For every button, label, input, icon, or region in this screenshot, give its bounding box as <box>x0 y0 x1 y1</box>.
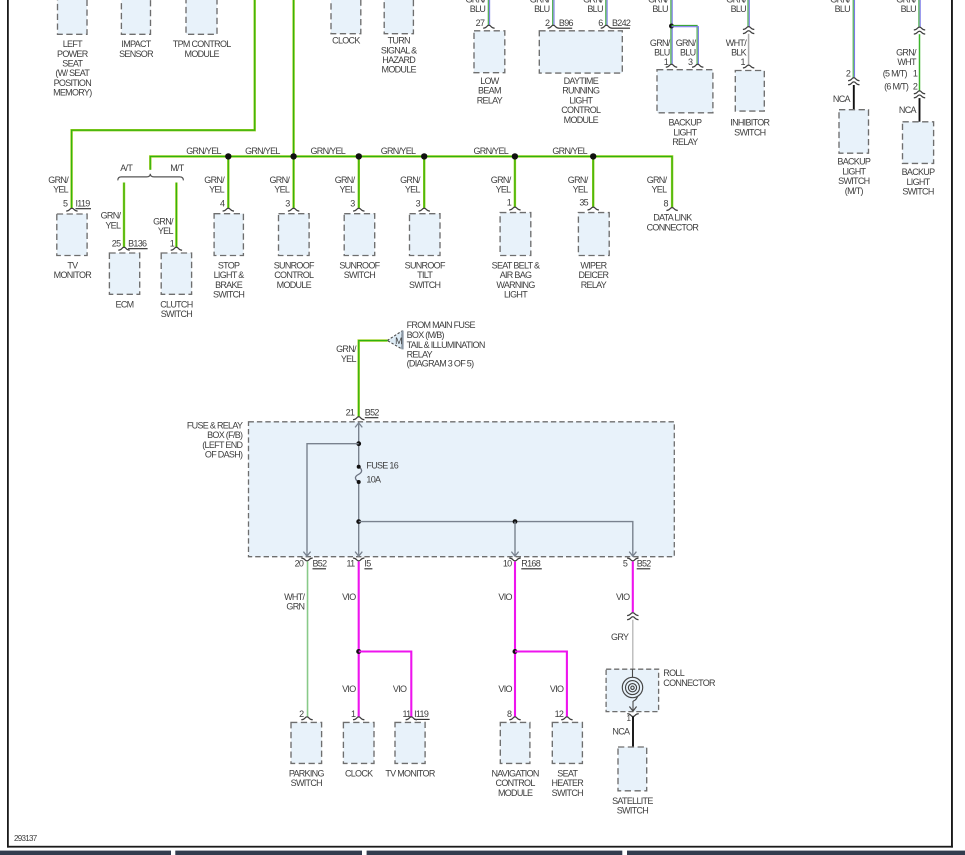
wire VIO branch to SEAT HEATER SWITCH <box>515 652 567 717</box>
svg-text:SEAT: SEAT <box>62 59 83 69</box>
svg-text:SATELLITE: SATELLITE <box>612 796 653 806</box>
svg-text:GRN/: GRN/ <box>568 175 589 185</box>
wire GRN/YEL from top to TV MONITOR (down, left, down) <box>48 0 254 208</box>
svg-text:WHT/: WHT/ <box>726 38 747 48</box>
svg-text:TV: TV <box>67 261 78 271</box>
svg-text:5: 5 <box>623 559 628 569</box>
svg-text:BLU: BLU <box>470 4 486 14</box>
junction dot bus x293 <box>290 153 296 159</box>
svg-text:HAZARD: HAZARD <box>382 55 416 65</box>
component box SEAT HEATER SWITCH <box>551 722 584 797</box>
svg-text:CONTROL: CONTROL <box>561 105 601 115</box>
component box NAVIGATION CONTROL MODULE <box>492 722 539 797</box>
svg-text:4: 4 <box>220 198 225 208</box>
svg-text:GRN/YEL: GRN/YEL <box>381 146 416 156</box>
wire label GRN/YEL at DATA LINK CONNECTOR <box>647 175 668 195</box>
wire GRN/BLU from top to DAYTIME pin 6 <box>583 0 607 25</box>
svg-text:LIGHT: LIGHT <box>569 95 593 105</box>
arrow exit at roll connector bottom <box>629 707 636 712</box>
svg-text:YEL: YEL <box>339 185 355 195</box>
component box CLOCK (bottom) <box>343 722 374 778</box>
svg-text:B52: B52 <box>313 559 328 569</box>
svg-text:8: 8 <box>507 709 512 719</box>
svg-text:FUSE & RELAY: FUSE & RELAY <box>187 420 243 430</box>
svg-text:DEICER: DEICER <box>578 270 609 280</box>
svg-text:GRN/: GRN/ <box>101 211 122 221</box>
svg-text:2: 2 <box>913 82 918 92</box>
svg-text:SWITCH: SWITCH <box>409 280 440 290</box>
svg-text:YEL: YEL <box>496 185 512 195</box>
svg-text:BLU: BLU <box>534 4 550 14</box>
junction dot VIO branch (nav/seat heater) <box>513 649 518 654</box>
wire GRN/YEL A/T branch to ECM <box>101 183 124 248</box>
svg-text:25: 25 <box>112 238 121 248</box>
svg-text:WHT/: WHT/ <box>284 592 305 602</box>
node labels (5 M/T) 1 and (6 M/T) 2 <box>883 68 918 91</box>
svg-text:BLU: BLU <box>731 4 747 14</box>
svg-text:CONTROL: CONTROL <box>274 270 314 280</box>
note text FROM MAIN FUSE BOX <box>407 320 485 368</box>
page frame bottom border <box>7 846 953 848</box>
node pin 3 at SUNROOF CONTROL MODULE <box>285 198 299 211</box>
svg-text:BEAM: BEAM <box>478 86 501 96</box>
arrow exit pin 11 <box>355 551 362 556</box>
svg-text:2: 2 <box>846 69 851 79</box>
inline connector symbol (far right top) <box>914 27 925 34</box>
svg-text:2: 2 <box>299 709 304 719</box>
component box INHIBITOR SWITCH <box>730 71 770 138</box>
svg-text:I5: I5 <box>364 559 371 569</box>
svg-text:SEAT BELT &: SEAT BELT & <box>492 261 540 271</box>
svg-text:WIPER: WIPER <box>580 261 607 271</box>
svg-text:SWITCH: SWITCH <box>902 187 933 197</box>
svg-text:TURN: TURN <box>388 36 410 46</box>
svg-text:(DIAGRAM 3 OF 5): (DIAGRAM 3 OF 5) <box>407 358 475 368</box>
svg-text:LIGHT: LIGHT <box>906 177 930 187</box>
node pin 10 R168 below fuse box <box>503 558 542 569</box>
junction dot GRN/BLU branch <box>669 24 674 29</box>
svg-text:YEL: YEL <box>573 185 589 195</box>
page frame right border <box>951 0 953 848</box>
svg-text:B52: B52 <box>637 559 652 569</box>
component box BACKUP LIGHT SWITCH <box>902 122 936 197</box>
svg-text:LIGHT: LIGHT <box>673 127 697 137</box>
svg-text:3: 3 <box>285 198 290 208</box>
wire GRN/YEL drop to SUNROOF SWITCH <box>335 156 359 208</box>
svg-text:10A: 10A <box>366 475 381 485</box>
svg-text:MONITOR: MONITOR <box>54 270 93 280</box>
svg-text:SUNROOF: SUNROOF <box>405 261 446 271</box>
component box LEFT POWER SEAT (clipped top) <box>53 0 92 98</box>
svg-text:BLU: BLU <box>652 4 668 14</box>
svg-text:LEFT: LEFT <box>63 39 83 49</box>
wire internal vertical from pin 21 to bottom exit 11 <box>358 423 360 551</box>
svg-text:SEAT: SEAT <box>557 768 578 778</box>
svg-text:B52: B52 <box>365 408 380 418</box>
wire VIO from pin 5 to inline connector <box>616 562 633 613</box>
wire GRN/YEL drop to WIPER DEICER RELAY <box>568 156 593 207</box>
svg-text:OF DASH): OF DASH) <box>205 450 243 460</box>
svg-text:GRN/YEL: GRN/YEL <box>473 146 508 156</box>
svg-text:LIGHT: LIGHT <box>842 166 866 176</box>
svg-text:5: 5 <box>63 198 68 208</box>
svg-text:35: 35 <box>579 197 588 207</box>
svg-text:SIGNAL &: SIGNAL & <box>381 45 417 55</box>
junction dot internal branch x515 <box>513 519 518 524</box>
svg-text:PARKING: PARKING <box>289 768 325 778</box>
svg-text:DATA LINK: DATA LINK <box>653 213 692 223</box>
svg-text:FROM MAIN FUSE: FROM MAIN FUSE <box>407 320 476 330</box>
component box CLOCK (clipped top) <box>331 0 361 46</box>
svg-text:A/T: A/T <box>120 163 133 173</box>
bottom table header bar 3 <box>367 851 623 855</box>
component box ECM <box>109 253 139 309</box>
svg-text:(W/ SEAT: (W/ SEAT <box>55 68 90 78</box>
svg-text:GRN/: GRN/ <box>647 175 668 185</box>
wire VIO branch to TV MONITOR <box>359 652 412 717</box>
svg-text:YEL: YEL <box>53 185 69 195</box>
wire GRN/YEL from M connector to fuse box pin 21 <box>336 341 387 417</box>
svg-text:NAVIGATION: NAVIGATION <box>492 768 539 778</box>
node pin 27 at LOW BEAM RELAY <box>476 18 495 28</box>
component box IMPACT SENSOR (clipped top) <box>119 0 154 59</box>
component box TURN SIGNAL & HAZARD MODULE (clipped top) <box>381 0 417 75</box>
svg-text:1: 1 <box>664 57 669 67</box>
node pin 3 at SUNROOF TILT SWITCH <box>416 198 430 211</box>
svg-text:SWITCH: SWITCH <box>838 176 869 186</box>
wire VIO from pin 11 to CLOCK <box>342 562 359 717</box>
node pin 11 I119 at TV MONITOR <box>403 709 430 720</box>
wire NCA black to SATELLITE SWITCH <box>612 717 633 747</box>
svg-text:BRAKE: BRAKE <box>215 280 243 290</box>
wire GRY to ROLL CONNECTOR <box>611 620 633 669</box>
component box SATELLITE SWITCH <box>612 747 653 816</box>
node pin 8 at NAVIGATION CONTROL MODULE <box>507 709 521 720</box>
inline connector symbol (far right lower) <box>914 91 925 98</box>
svg-text:(6 M/T): (6 M/T) <box>884 82 909 92</box>
svg-text:B96: B96 <box>559 18 574 28</box>
svg-text:BLU: BLU <box>587 4 603 14</box>
svg-text:RUNNING: RUNNING <box>562 86 600 96</box>
svg-text:I119: I119 <box>76 198 91 208</box>
wire GRN/BLU from top to inline connector (far right) <box>896 0 920 27</box>
svg-text:MODULE: MODULE <box>185 49 220 59</box>
wire GRN/YEL from top into bus junction <box>292 0 294 156</box>
svg-text:STOP: STOP <box>218 261 240 271</box>
junction dot internal top <box>356 441 361 446</box>
svg-text:RELAY: RELAY <box>581 280 607 290</box>
svg-text:GRN/YEL: GRN/YEL <box>310 146 345 156</box>
svg-text:POSITION: POSITION <box>54 78 92 88</box>
wire GRN/BLU from top to BACKUP LIGHT SWITCH (M/T) <box>830 0 854 78</box>
svg-text:R168: R168 <box>521 559 540 569</box>
svg-text:8: 8 <box>663 198 668 208</box>
svg-text:RELAY: RELAY <box>477 95 503 105</box>
component box SUNROOF CONTROL MODULE <box>274 214 315 290</box>
junction dot bus x424 <box>421 153 427 159</box>
svg-text:GRN/: GRN/ <box>676 38 697 48</box>
svg-text:FUSE 16: FUSE 16 <box>366 461 398 471</box>
svg-text:GRN/: GRN/ <box>491 175 512 185</box>
svg-text:NCA: NCA <box>612 726 630 736</box>
svg-text:BLU: BLU <box>680 48 696 58</box>
node pin 5 I119 at TV MONITOR <box>63 198 91 211</box>
svg-text:BOX (F/B): BOX (F/B) <box>207 430 243 440</box>
svg-text:SWITCH: SWITCH <box>617 806 648 816</box>
svg-text:LOW: LOW <box>480 76 500 86</box>
node pin 1 at INHIBITOR SWITCH <box>740 57 754 68</box>
svg-text:SWITCH: SWITCH <box>552 788 583 798</box>
svg-text:VIO: VIO <box>616 592 630 602</box>
node pin 20 B52 below fuse box <box>295 558 328 569</box>
brace A/T M/T selector <box>118 163 185 180</box>
svg-text:10: 10 <box>503 559 512 569</box>
fuse & relay box F/B <box>249 422 675 557</box>
svg-text:TPM CONTROL: TPM CONTROL <box>173 39 231 49</box>
svg-text:GRN/: GRN/ <box>400 175 421 185</box>
svg-text:GRN/: GRN/ <box>650 38 671 48</box>
bottom table header bar 1 <box>0 851 171 855</box>
wire GRN/YEL drop to SUNROOF TILT SWITCH <box>400 156 424 208</box>
svg-text:3: 3 <box>416 198 421 208</box>
node pin 8 DATA LINK CONNECTOR <box>647 198 700 232</box>
svg-text:1: 1 <box>913 68 918 78</box>
node pin 3 at BACKUP LIGHT RELAY <box>688 57 703 67</box>
svg-text:YEL: YEL <box>105 220 121 230</box>
wire GRN/YEL drop to SUNROOF CONTROL MODULE <box>269 156 293 208</box>
svg-text:GRN/YEL: GRN/YEL <box>552 146 587 156</box>
svg-text:3: 3 <box>688 57 693 67</box>
svg-text:GRN/: GRN/ <box>48 175 69 185</box>
svg-text:BACKUP: BACKUP <box>902 167 936 177</box>
svg-text:VIO: VIO <box>550 684 564 694</box>
svg-text:SWITCH: SWITCH <box>734 127 765 137</box>
junction dot bus x358 <box>356 153 362 159</box>
svg-text:YEL: YEL <box>274 185 290 195</box>
svg-text:CLOCK: CLOCK <box>345 768 373 778</box>
svg-text:YEL: YEL <box>341 354 357 364</box>
svg-text:M: M <box>395 336 402 346</box>
svg-text:BACKUP: BACKUP <box>837 157 871 167</box>
svg-text:LIGHT: LIGHT <box>504 290 528 300</box>
svg-text:ECM: ECM <box>116 299 134 309</box>
svg-text:1: 1 <box>170 238 175 248</box>
wire GRN/BLU from top to inline connector (INHIBITOR) <box>726 0 749 27</box>
svg-text:GRN/: GRN/ <box>153 217 174 227</box>
svg-text:YEL: YEL <box>209 185 225 195</box>
svg-text:CONNECTOR: CONNECTOR <box>663 678 716 688</box>
svg-text:B242: B242 <box>612 18 631 28</box>
svg-text:AIR BAG: AIR BAG <box>500 270 532 280</box>
svg-text:1: 1 <box>740 57 745 67</box>
svg-text:GRN/: GRN/ <box>335 175 356 185</box>
svg-text:MODULE: MODULE <box>382 65 417 75</box>
arrow entry at pin 21 (points up into box) <box>355 423 362 428</box>
off-page connector M (from main fuse box) <box>387 331 402 350</box>
wire VIO from pin 10 to NAVIGATION CONTROL MODULE <box>498 562 515 717</box>
svg-text:3: 3 <box>350 198 355 208</box>
svg-text:27: 27 <box>476 18 485 28</box>
arrow exit pin 10 <box>511 551 518 556</box>
node pin 21 B52 at fuse box <box>346 408 380 420</box>
svg-text:(5 M/T): (5 M/T) <box>883 68 908 78</box>
wire GRN/BLU from top to DAYTIME pin 2 <box>530 0 554 25</box>
svg-text:MODULE: MODULE <box>498 788 533 798</box>
component box BACKUP LIGHT RELAY <box>657 70 713 147</box>
component box BACKUP LIGHT SWITCH (M/T) <box>837 110 871 196</box>
svg-text:(LEFT END: (LEFT END <box>202 440 243 450</box>
svg-text:YEL: YEL <box>651 185 667 195</box>
svg-text:1: 1 <box>507 197 512 207</box>
node pin 35 at WIPER DEICER RELAY <box>579 197 599 210</box>
svg-text:BLU: BLU <box>835 4 851 14</box>
wire internal drop to exit 10 <box>514 522 516 551</box>
roll connector coil symbol <box>622 669 642 711</box>
node pin 2 B96 at DAYTIME module <box>545 18 574 28</box>
svg-text:SUNROOF: SUNROOF <box>339 261 380 271</box>
svg-text:DAYTIME: DAYTIME <box>564 76 599 86</box>
svg-text:2: 2 <box>545 18 550 28</box>
svg-text:VIO: VIO <box>393 684 407 694</box>
fuse 16 symbol <box>355 461 398 485</box>
component box CLUTCH SWITCH <box>160 253 193 319</box>
wire GRN/WHT to BACKUP LIGHT SWITCH <box>896 34 919 91</box>
wire NCA black to BACKUP LIGHT SWITCH (M/T) <box>833 85 854 110</box>
svg-text:SWITCH: SWITCH <box>161 309 192 319</box>
component box STOP LIGHT & BRAKE SWITCH <box>213 214 244 300</box>
svg-text:POWER: POWER <box>57 49 89 59</box>
svg-text:BLU: BLU <box>654 48 670 58</box>
svg-text:GRN/: GRN/ <box>896 48 917 58</box>
component box SUNROOF TILT SWITCH <box>405 214 446 290</box>
node pin 2 and inline connector (M/T switch wire) <box>846 69 860 85</box>
svg-text:CLUTCH: CLUTCH <box>160 299 193 309</box>
svg-text:INHIBITOR: INHIBITOR <box>730 118 770 128</box>
node pin 1 at BACKUP LIGHT RELAY <box>664 57 678 67</box>
svg-text:BACKUP: BACKUP <box>668 118 702 128</box>
svg-text:MODULE: MODULE <box>277 280 312 290</box>
svg-text:YEL: YEL <box>158 226 174 236</box>
wire internal branch to pin 20 exit <box>307 444 359 551</box>
arrow exit pin 20 <box>303 551 310 556</box>
inline connector symbol (INHIBITOR wire) <box>743 27 754 34</box>
svg-text:GRY: GRY <box>611 632 629 642</box>
svg-text:TILT: TILT <box>417 270 433 280</box>
svg-text:293137: 293137 <box>14 834 38 843</box>
svg-text:LIGHT &: LIGHT & <box>214 270 245 280</box>
junction dot bus x228 <box>225 153 231 159</box>
svg-text:VIO: VIO <box>342 684 356 694</box>
svg-text:VIO: VIO <box>498 592 512 602</box>
svg-text:12: 12 <box>555 709 564 719</box>
inline connector symbol (VIO to GRY) <box>627 613 638 620</box>
svg-text:I119: I119 <box>414 709 429 719</box>
bottom table header bar 2 <box>175 851 362 855</box>
svg-text:RELAY: RELAY <box>672 137 698 147</box>
junction dot bus x514 <box>512 153 518 159</box>
svg-text:YEL: YEL <box>405 185 421 195</box>
bottom table header bar 4 <box>627 851 965 855</box>
svg-text:MEMORY): MEMORY) <box>53 88 92 98</box>
wire internal horizontal branch to exits 10 and 5 <box>359 522 633 551</box>
svg-text:HEATER: HEATER <box>551 778 584 788</box>
component box TPM CONTROL MODULE (clipped top) <box>173 0 231 59</box>
svg-text:SWITCH: SWITCH <box>291 778 322 788</box>
svg-text:6: 6 <box>598 18 603 28</box>
node pin 4 at STOP LIGHT & BRAKE SWITCH <box>220 198 234 211</box>
node pin 1 at CLUTCH SWITCH <box>170 238 182 250</box>
svg-text:ROLL: ROLL <box>663 668 684 678</box>
svg-text:SWITCH: SWITCH <box>213 290 244 300</box>
svg-text:NCA: NCA <box>833 94 851 104</box>
node pin 1 at SEAT BELT & AIR BAG WARNING LIGHT <box>507 197 521 210</box>
component box WIPER DEICER RELAY <box>578 213 609 290</box>
wire GRN/BLU branch to BACKUP LIGHT RELAY pin 3 <box>650 25 699 64</box>
svg-text:GRN/: GRN/ <box>336 344 357 354</box>
junction dot internal lower <box>356 519 361 524</box>
node pin 1 at CLOCK <box>351 709 364 720</box>
svg-text:1: 1 <box>351 709 356 719</box>
node pin 5 B52 below fuse box <box>623 558 651 569</box>
arrow exit pin 5 <box>629 551 636 556</box>
svg-text:SWITCH: SWITCH <box>344 270 375 280</box>
page frame left border <box>7 0 9 848</box>
svg-text:(M/T): (M/T) <box>845 186 864 196</box>
wire GRN/YEL M/T branch to CLUTCH SWITCH <box>153 183 176 248</box>
svg-text:WARNING: WARNING <box>496 280 535 290</box>
svg-text:GRN/: GRN/ <box>269 175 290 185</box>
svg-text:VIO: VIO <box>498 684 512 694</box>
component box PARKING SWITCH <box>289 722 325 788</box>
svg-text:BOX (M/B): BOX (M/B) <box>407 330 445 340</box>
svg-text:GRN/YEL: GRN/YEL <box>245 146 280 156</box>
roll connector box <box>606 668 716 712</box>
junction dot bus x593 <box>590 153 596 159</box>
svg-text:11: 11 <box>347 559 356 569</box>
wire GRN/YEL drop to STOP LIGHT & BRAKE SWITCH <box>204 156 228 208</box>
svg-text:GRN/: GRN/ <box>204 175 225 185</box>
svg-text:VIO: VIO <box>342 592 356 602</box>
svg-text:SUNROOF: SUNROOF <box>274 261 315 271</box>
svg-text:GRN: GRN <box>286 602 304 612</box>
label FUSE & RELAY BOX (F/B) <box>187 420 244 459</box>
svg-text:SENSOR: SENSOR <box>119 49 154 59</box>
node pin 2 at PARKING SWITCH <box>299 709 313 720</box>
svg-text:M/T: M/T <box>170 163 185 173</box>
svg-text:TV MONITOR: TV MONITOR <box>385 768 436 778</box>
component box LOW BEAM RELAY <box>474 31 505 106</box>
component box TV MONITOR (bottom) <box>385 722 436 778</box>
wire GRN/YEL drop to SEAT BELT & AIR BAG WARNING LIGHT <box>491 156 515 207</box>
svg-text:BLK: BLK <box>731 48 747 58</box>
wire WHT/GRN to PARKING SWITCH <box>284 562 308 717</box>
wire NCA black to BACKUP LIGHT SWITCH <box>899 98 920 122</box>
component box SEAT BELT & AIR BAG WARNING LIGHT <box>492 213 540 300</box>
wire GRN/BLU from top to LOW BEAM RELAY <box>465 0 489 25</box>
svg-text:CLOCK: CLOCK <box>332 36 360 46</box>
node pin 12 at SEAT HEATER SWITCH <box>555 709 573 720</box>
svg-text:IMPACT: IMPACT <box>121 39 151 49</box>
svg-text:21: 21 <box>346 408 355 418</box>
component box TV MONITOR <box>54 214 93 280</box>
component box SUNROOF SWITCH <box>339 214 380 281</box>
component box DAYTIME RUNNING LIGHT CONTROL MODULE <box>539 31 622 125</box>
svg-text:CONNECTOR: CONNECTOR <box>647 222 700 232</box>
svg-text:BLU: BLU <box>901 4 917 14</box>
wire GRN/YEL horizontal bus <box>150 156 672 207</box>
svg-text:GRN/YEL: GRN/YEL <box>186 146 221 156</box>
svg-text:WHT: WHT <box>897 57 917 67</box>
